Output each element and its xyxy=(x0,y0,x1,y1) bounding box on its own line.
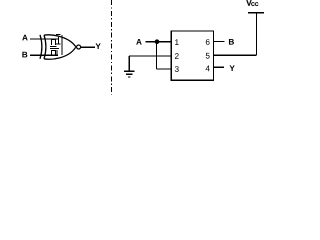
Vcc rail bar xyxy=(248,12,264,14)
XNOR gate U1 schmitt symbol input A xyxy=(52,35,61,45)
node A (left gate input label) xyxy=(22,35,28,41)
wire junction down xyxy=(156,42,158,69)
wire to pin 3 xyxy=(157,68,172,70)
XNOR gate U1 body back curve xyxy=(44,35,46,59)
pin 3 number xyxy=(175,66,179,72)
wire gate output to Y xyxy=(81,46,95,48)
XNOR gate U1 inner vertical mark xyxy=(61,35,63,55)
pin 6 number xyxy=(206,39,210,45)
wire pin 4 to Y xyxy=(214,66,225,68)
wire ground to pin 2 xyxy=(129,55,171,57)
node B (right side label) xyxy=(229,39,234,45)
XNOR gate U1 output bubble xyxy=(77,45,81,49)
wire B to gate xyxy=(30,54,58,56)
node A (right side label) xyxy=(136,39,142,45)
node B (left gate input label) xyxy=(22,52,27,58)
pin 4 number xyxy=(206,66,210,72)
wire A to gate xyxy=(30,38,58,40)
wire ground vertical xyxy=(128,56,130,71)
node Y (right side label) xyxy=(230,65,235,71)
Vcc label xyxy=(246,0,258,6)
XNOR gate U1 body top edge xyxy=(44,35,76,47)
junction dot on A wire xyxy=(155,39,160,44)
node Y (left output label) xyxy=(96,43,101,49)
wire pin 5 to Vcc rail xyxy=(214,54,257,56)
XNOR gate U1 body bottom edge xyxy=(44,47,76,59)
XNOR gate U1 input curve xyxy=(40,35,42,59)
XNOR gate U1 schmitt symbol input B xyxy=(50,46,59,55)
ground xyxy=(124,71,134,77)
IC U2 package body xyxy=(171,31,213,80)
wire A to pin 1 xyxy=(146,41,172,43)
wire pin 6 to B xyxy=(214,41,225,43)
pin 1 number xyxy=(175,39,179,45)
Vcc rail vertical xyxy=(255,13,257,55)
divider dash-dot line xyxy=(111,0,113,95)
pin 2 number xyxy=(175,53,179,59)
pin 5 number xyxy=(206,53,210,59)
